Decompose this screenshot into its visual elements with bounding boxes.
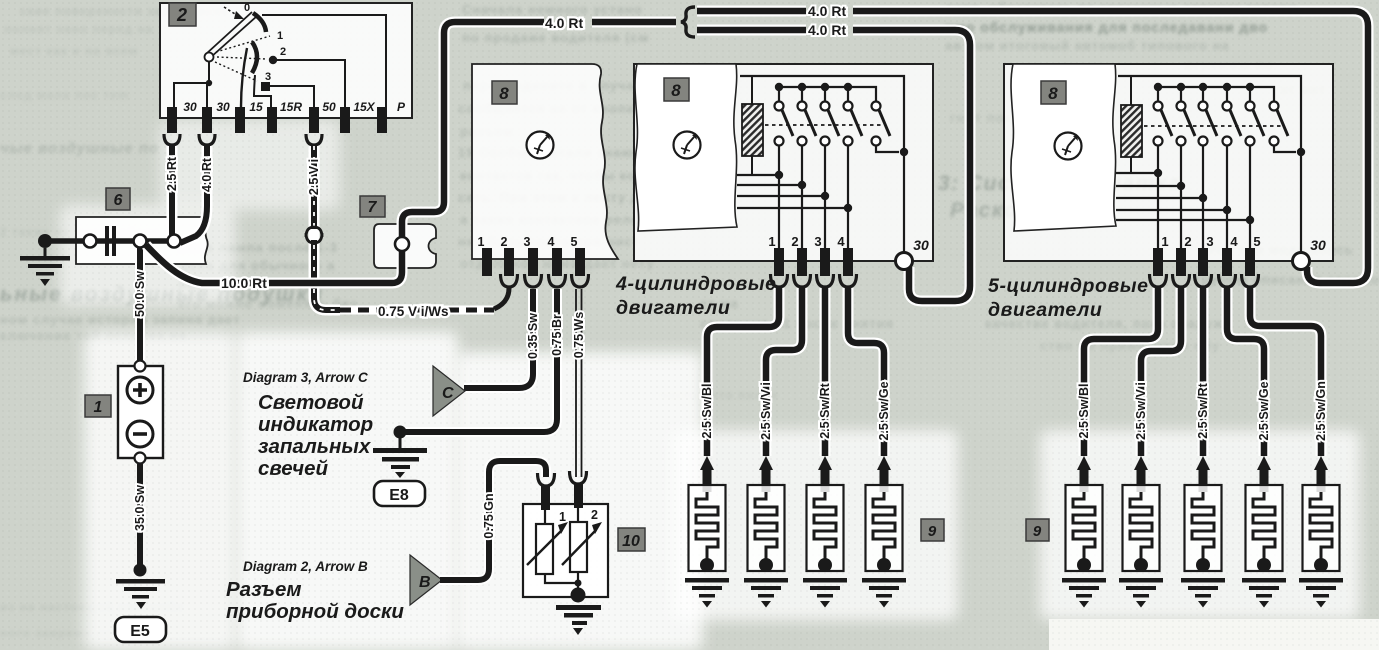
svg-text:E5: E5: [130, 623, 150, 640]
svg-text:1: 1: [478, 235, 485, 249]
svg-text:4.0 Rt: 4.0 Rt: [808, 22, 846, 38]
svg-text:30: 30: [216, 100, 230, 114]
svg-text:50.0 Sw: 50.0 Sw: [133, 271, 147, 317]
svg-text:35.0 Sw: 35.0 Sw: [133, 485, 147, 531]
svg-text:Разъем: Разъем: [226, 578, 302, 601]
svg-text:двигатели: двигатели: [616, 297, 730, 319]
svg-text:B: B: [419, 574, 431, 591]
svg-text:9: 9: [928, 523, 937, 540]
svg-text:Diagram 2, Arrow B: Diagram 2, Arrow B: [243, 559, 368, 574]
svg-text:4.0 Rt: 4.0 Rt: [200, 157, 214, 192]
svg-text:4.0 Rt: 4.0 Rt: [808, 3, 846, 19]
svg-text:0.75 V i/Ws: 0.75 V i/Ws: [378, 304, 449, 319]
svg-text:2.5 Sw/V i: 2.5 Sw/V i: [759, 382, 773, 440]
svg-text:2.5 Sw/Rt: 2.5 Sw/Rt: [1196, 382, 1210, 438]
svg-text:8: 8: [499, 84, 509, 103]
svg-text:запальных: запальных: [258, 435, 372, 458]
svg-text:2: 2: [591, 508, 598, 522]
svg-text:4: 4: [837, 234, 845, 249]
svg-text:2.5 Sw/Ge: 2.5 Sw/Ge: [877, 381, 891, 440]
svg-text:3: 3: [814, 234, 821, 249]
svg-text:0.75 Br: 0.75 Br: [550, 314, 564, 356]
svg-text:2: 2: [176, 5, 187, 25]
svg-text:2: 2: [1184, 234, 1191, 249]
svg-text:0.35 Sw: 0.35 Sw: [526, 313, 540, 359]
svg-text:2.5 Sw/Bl: 2.5 Sw/Bl: [700, 384, 714, 439]
svg-text:свечей: свечей: [258, 457, 329, 480]
svg-text:2: 2: [280, 46, 286, 58]
svg-text:1: 1: [94, 399, 103, 416]
svg-text:0.75 Ws: 0.75 Ws: [572, 312, 586, 359]
svg-text:P: P: [397, 100, 406, 114]
svg-text:индикатор: индикатор: [258, 413, 373, 436]
svg-text:5: 5: [1253, 234, 1260, 249]
svg-text:4.0 Rt: 4.0 Rt: [545, 15, 583, 31]
svg-text:2: 2: [791, 234, 798, 249]
svg-text:4: 4: [548, 235, 555, 249]
svg-text:2.5 V i: 2.5 V i: [307, 159, 321, 195]
svg-text:3: 3: [524, 235, 531, 249]
svg-text:50: 50: [322, 100, 336, 114]
svg-text:6: 6: [114, 192, 123, 209]
svg-text:2: 2: [501, 235, 508, 249]
svg-text:4-цилиндровые: 4-цилиндровые: [615, 273, 777, 295]
svg-text:3: 3: [1206, 234, 1213, 249]
svg-text:9: 9: [1033, 523, 1042, 540]
svg-text:0: 0: [244, 2, 250, 14]
svg-text:E8: E8: [389, 487, 409, 504]
svg-text:0.75 Gn: 0.75 Gn: [482, 493, 496, 538]
svg-text:Diagram 3, Arrow C: Diagram 3, Arrow C: [243, 370, 368, 385]
svg-text:10.0 Rt: 10.0 Rt: [221, 275, 267, 291]
svg-text:1: 1: [768, 234, 775, 249]
svg-text:7: 7: [368, 199, 378, 216]
svg-text:10: 10: [622, 533, 640, 550]
svg-text:двигатели: двигатели: [988, 299, 1102, 321]
svg-text:3: 3: [265, 71, 271, 83]
svg-text:2.5 Sw/Bl: 2.5 Sw/Bl: [1077, 384, 1091, 439]
svg-text:Световой: Световой: [258, 391, 364, 414]
svg-text:приборной доски: приборной доски: [226, 600, 404, 623]
svg-text:2.5 Sw/Gn: 2.5 Sw/Gn: [1314, 381, 1328, 441]
svg-text:2.5 Sw/V i: 2.5 Sw/V i: [1134, 382, 1148, 440]
svg-text:5-цилиндровые: 5-цилиндровые: [988, 275, 1149, 297]
svg-text:30: 30: [1310, 237, 1326, 253]
svg-text:8: 8: [1048, 84, 1058, 103]
svg-text:C: C: [442, 385, 454, 402]
svg-text:15R: 15R: [280, 100, 302, 114]
svg-text:15: 15: [249, 100, 263, 114]
svg-text:4: 4: [1230, 234, 1238, 249]
svg-text:30: 30: [913, 237, 929, 253]
svg-text:1: 1: [559, 510, 566, 524]
svg-text:15X: 15X: [353, 100, 375, 114]
svg-text:2.5 Sw/Rt: 2.5 Sw/Rt: [818, 382, 832, 438]
svg-text:2.5 Rt: 2.5 Rt: [165, 156, 179, 191]
svg-text:30: 30: [183, 100, 197, 114]
svg-text:1: 1: [1161, 234, 1168, 249]
svg-text:1: 1: [277, 30, 283, 42]
svg-text:8: 8: [671, 81, 681, 100]
svg-text:2.5 Sw/Ge: 2.5 Sw/Ge: [1257, 381, 1271, 440]
svg-text:5: 5: [571, 235, 578, 249]
